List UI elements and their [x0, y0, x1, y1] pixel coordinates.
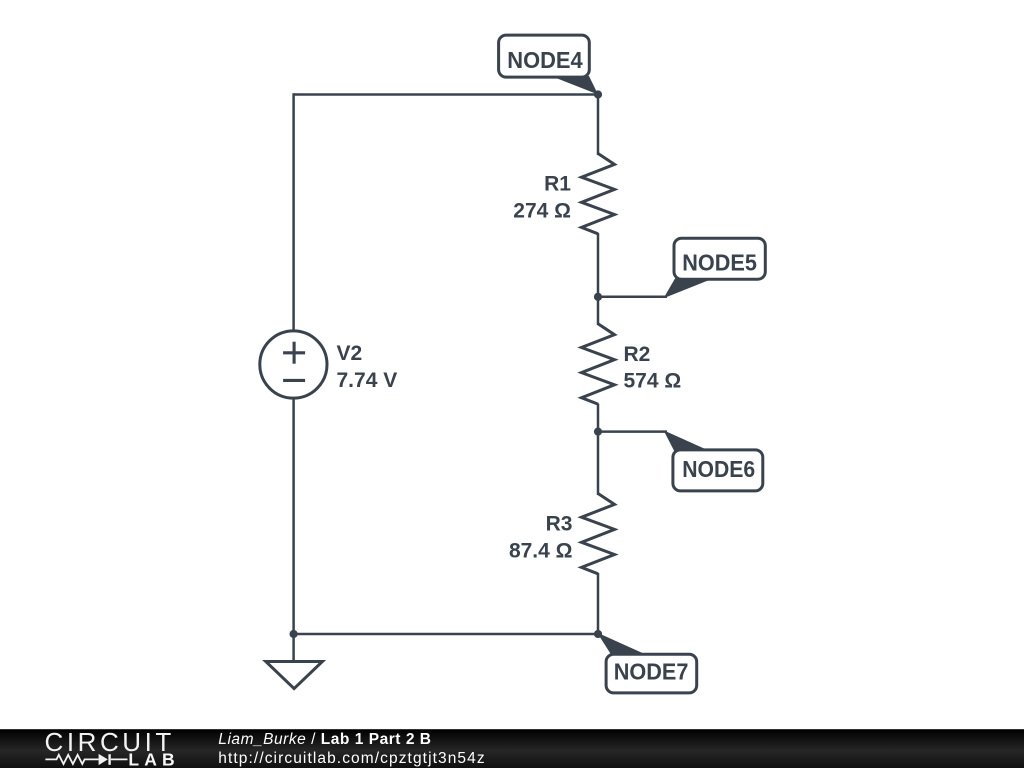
- svg-text:Liam_Burke / Lab 1 Part 2 B: Liam_Burke / Lab 1 Part 2 B: [218, 731, 431, 748]
- junction dot NODE7: [594, 630, 602, 638]
- junction dot NODE5: [594, 293, 602, 301]
- wire NODE5 horizontal stub: [598, 296, 667, 299]
- svg-text:R3: R3: [546, 513, 573, 536]
- junction dot NODE6: [594, 428, 602, 436]
- svg-text:87.4 Ω: 87.4 Ω: [509, 539, 573, 562]
- svg-text:V2: V2: [337, 342, 363, 365]
- wire NODE5 to R2: [597, 297, 600, 325]
- node label NODE6: [664, 430, 763, 491]
- svg-text:R1: R1: [544, 173, 571, 196]
- wire R1 to NODE5: [597, 233, 600, 297]
- ground symbol: [266, 662, 323, 689]
- footer bar: [0, 729, 1024, 768]
- svg-text:LAB: LAB: [128, 750, 176, 768]
- wire bottom horizontal (ground node to NODE7): [294, 633, 598, 636]
- wire ground stub: [292, 634, 295, 662]
- wire R3 to NODE7: [597, 573, 600, 634]
- junction dot NODE4: [594, 90, 602, 98]
- node label NODE4: [499, 35, 598, 94]
- wire left vertical lower (V2 - terminal to bottom wire): [292, 399, 295, 635]
- wire NODE6 to R3: [597, 432, 600, 495]
- svg-text:http://circuitlab.com/cpztgtjt: http://circuitlab.com/cpztgtjt3n54z: [218, 750, 484, 767]
- wire top horizontal (V2 top to NODE4): [294, 93, 598, 96]
- svg-text:574 Ω: 574 Ω: [624, 370, 682, 393]
- node label NODE7: [597, 633, 697, 693]
- svg-text:7.74 V: 7.74 V: [337, 369, 398, 392]
- wire right vertical NODE4 to R1: [597, 95, 600, 156]
- svg-text:R2: R2: [624, 343, 651, 366]
- svg-text:NODE5: NODE5: [682, 250, 757, 276]
- resistor R3: [582, 494, 615, 574]
- svg-text:NODE7: NODE7: [614, 658, 689, 684]
- junction dot ground node: [290, 630, 298, 638]
- svg-text:NODE6: NODE6: [682, 456, 755, 482]
- wire R2 to NODE6: [597, 404, 600, 432]
- wire NODE6 horizontal stub: [598, 430, 667, 433]
- node label NODE5: [664, 238, 766, 298]
- CircuitLab logo resistor-diode glyph: [45, 754, 127, 765]
- resistor R1: [582, 154, 615, 234]
- svg-text:274 Ω: 274 Ω: [513, 199, 571, 222]
- wire left vertical upper (top wire to V2 + terminal): [292, 93, 295, 331]
- voltage source V2: [260, 331, 327, 398]
- svg-text:NODE4: NODE4: [507, 47, 583, 73]
- resistor R2: [582, 324, 615, 404]
